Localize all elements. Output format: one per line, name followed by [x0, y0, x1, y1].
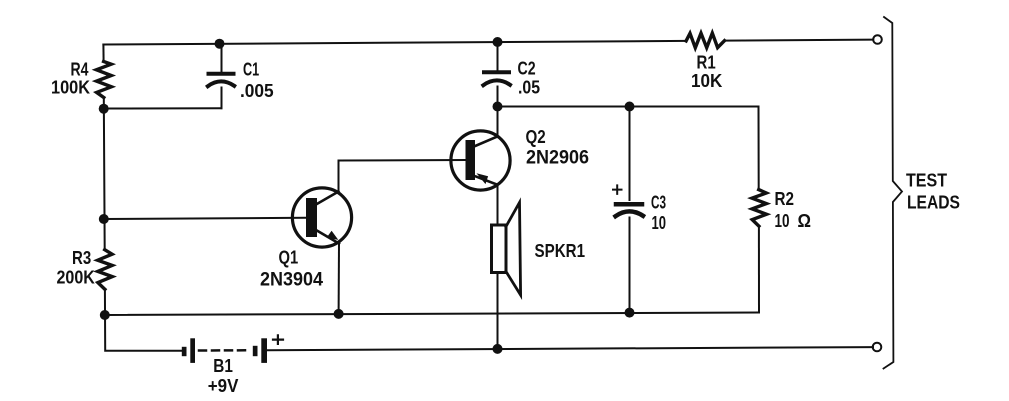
svg-text:.005: .005	[240, 81, 274, 101]
svg-text:R2: R2	[775, 189, 795, 209]
svg-text:200K: 200K	[57, 267, 95, 287]
svg-text:LEADS: LEADS	[907, 192, 960, 212]
svg-text:Q1: Q1	[279, 248, 299, 268]
svg-text:C3: C3	[651, 193, 666, 213]
svg-text:Ω: Ω	[798, 211, 812, 231]
svg-text:SPKR1: SPKR1	[535, 241, 586, 261]
svg-text:.05: .05	[518, 78, 540, 98]
svg-text:R4: R4	[71, 60, 89, 80]
svg-text:100K: 100K	[51, 78, 90, 98]
svg-text:C2: C2	[518, 58, 536, 78]
svg-text:2N2906: 2N2906	[526, 148, 589, 169]
svg-text:10: 10	[775, 211, 790, 231]
svg-text:B1: B1	[213, 356, 233, 376]
svg-text:10K: 10K	[691, 71, 722, 91]
svg-text:+9V: +9V	[208, 376, 239, 396]
svg-text:10: 10	[652, 213, 667, 233]
svg-text:Q2: Q2	[526, 127, 546, 147]
svg-text:R3: R3	[72, 248, 91, 268]
svg-text:2N3904: 2N3904	[260, 269, 323, 290]
svg-text:TEST: TEST	[906, 171, 947, 191]
svg-text:C1: C1	[243, 60, 259, 80]
svg-text:R1: R1	[697, 52, 716, 72]
